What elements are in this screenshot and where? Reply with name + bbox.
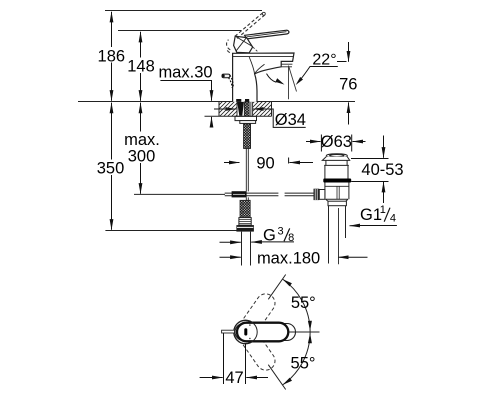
svg-text:G1: G1 [360,206,382,224]
svg-text:max.30: max.30 [158,63,212,81]
svg-text:8: 8 [288,232,294,244]
svg-text:47: 47 [225,369,243,387]
svg-text:300: 300 [128,148,156,166]
svg-text:76: 76 [339,75,357,93]
svg-text:90: 90 [256,155,274,173]
svg-text:1: 1 [380,204,386,216]
svg-text:Ø63: Ø63 [321,133,352,151]
svg-text:3: 3 [278,226,284,238]
svg-text:G: G [263,227,276,245]
svg-text:148: 148 [127,58,155,76]
svg-text:186: 186 [98,48,126,66]
svg-text:22°: 22° [312,52,336,69]
svg-text:Ø34: Ø34 [275,111,306,129]
svg-text:55°: 55° [291,294,316,312]
svg-text:55°: 55° [291,355,316,373]
svg-text:4: 4 [390,212,396,224]
svg-text:40-53: 40-53 [361,161,403,179]
svg-text:350: 350 [97,160,125,178]
svg-text:max.180: max.180 [257,249,320,267]
svg-text:max.: max. [124,131,160,149]
